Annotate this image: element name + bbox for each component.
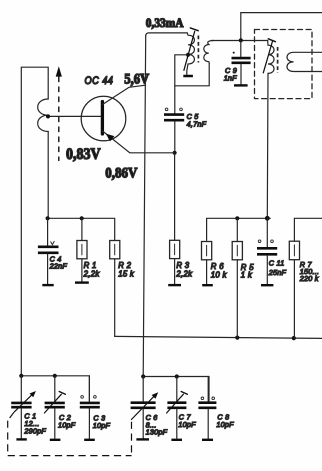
ground C6: [136, 438, 149, 440]
resistor R3: [170, 240, 194, 284]
node R7 bottom: [292, 336, 296, 340]
wire oscillator secondary top to C9 node and T2 primary: [211, 40, 268, 42]
wire tap to C5 line: [175, 55, 188, 113]
svg-text:220 k: 220 k: [299, 274, 319, 283]
variable capacitor C2: [44, 376, 75, 438]
ground C11: [261, 284, 273, 286]
transistor Q1 base bar: [101, 102, 104, 135]
node C11 top: [265, 216, 270, 221]
variable capacitor C6: [131, 377, 168, 439]
transformer T1 secondary coil: [204, 41, 214, 64]
svg-text:10pF: 10pF: [216, 420, 234, 429]
antenna coil L1 winding: [38, 99, 49, 132]
svg-text:0,33mA: 0,33mA: [146, 15, 184, 30]
svg-text:C 11: C 11: [269, 258, 285, 267]
transformer T1 primary coil: [187, 33, 195, 75]
svg-text:130pF: 130pF: [146, 428, 168, 437]
output transformer T2 enclosure (dashed box): [255, 30, 313, 99]
variable capacitor C1: [11, 376, 46, 438]
node C9 junction: [239, 38, 243, 42]
svg-text:10 k: 10 k: [211, 270, 228, 279]
node C7 top: [175, 374, 179, 378]
resistor R7: [289, 218, 322, 338]
svg-text:1 k: 1 k: [241, 271, 253, 280]
transformer T2 primary coil: [268, 41, 274, 74]
transistor Q1 OC44 circle: [81, 96, 126, 141]
ground R3: [168, 284, 181, 286]
svg-text:2,2k: 2,2k: [175, 269, 193, 278]
core T2 dashed: [277, 47, 279, 73]
ground R6: [202, 284, 213, 286]
transistor Q1 collector lead: [103, 85, 146, 104]
svg-text:290pF: 290pF: [23, 426, 46, 435]
core T1 dashed: [197, 36, 199, 63]
resistor R1: [77, 218, 100, 281]
node C4 top: [46, 216, 50, 220]
adjustable core arrow T2: [263, 39, 275, 73]
svg-text:5,6V: 5,6V: [124, 71, 149, 87]
svg-text:0,86V: 0,86V: [105, 166, 137, 182]
tuning core dashed arrow L1: [56, 66, 62, 161]
capacitor C11: [257, 218, 287, 284]
node emitter junction: [173, 151, 177, 155]
wire antenna tank bus: [21, 376, 89, 402]
svg-text:10pF: 10pF: [178, 420, 196, 429]
wire base to coil tap: [48, 115, 101, 117]
svg-text:22nF: 22nF: [49, 262, 68, 271]
svg-text:15 k: 15 k: [118, 269, 135, 278]
svg-text:0,83V: 0,83V: [66, 146, 101, 163]
resistor R6: [202, 242, 228, 284]
transistor Q1 emitter arrow (PNP): [106, 134, 115, 142]
svg-text:2,2k: 2,2k: [83, 269, 101, 278]
capacitor C4: [38, 218, 67, 284]
node R5 top: [235, 216, 239, 220]
antenna coil L1 frame: [21, 67, 48, 376]
wire T2 primary bottom down to filter node: [266, 73, 269, 218]
wire collector supply line down to oscillator tank: [143, 36, 146, 376]
node T1 primary tap: [186, 53, 190, 57]
wire filter bus (R6 R5 C11): [207, 218, 271, 240]
capacitor C9: [224, 40, 251, 84]
node R5 bottom: [235, 336, 239, 340]
mechanical coupling of tuning gang (dashed): [8, 412, 132, 455]
wire emitter to junction and down to R3: [130, 153, 175, 241]
ground C2: [50, 439, 61, 441]
ground C8: [202, 439, 213, 441]
node C2 top: [53, 374, 57, 378]
wire top rail: [241, 13, 322, 41]
ground C7: [171, 439, 182, 441]
ground C9: [234, 84, 248, 86]
ground C3: [84, 439, 95, 441]
node C1 top: [19, 374, 23, 378]
ground C1: [16, 438, 26, 440]
transformer T2 secondary coil: [287, 52, 322, 71]
adjustable core arrow T1: [184, 28, 198, 70]
resistor R5: [232, 218, 254, 337]
capacitor C5: [164, 108, 207, 153]
resistor R2: [110, 241, 135, 337]
ground C4: [42, 284, 53, 286]
trimmer capacitor C8: [198, 377, 234, 439]
node L1 tap: [46, 114, 50, 118]
svg-text:25nF: 25nF: [268, 268, 287, 277]
svg-text:4,7nF: 4,7nF: [187, 120, 207, 129]
svg-text:10pF: 10pF: [93, 421, 111, 430]
wire negative rail: [115, 336, 322, 338]
ground T1 primary: [183, 75, 193, 78]
svg-text:1nF: 1nF: [224, 73, 237, 82]
svg-text:OC 44: OC 44: [85, 75, 114, 87]
variable capacitor C7: [167, 377, 197, 439]
node R1 top: [80, 216, 84, 220]
wire 0,33mA feed: [146, 33, 188, 36]
wire base bias bus: [48, 218, 115, 240]
svg-text:10pF: 10pF: [58, 420, 76, 429]
node C6 top: [141, 374, 145, 378]
transistor Q1 emitter lead: [103, 131, 130, 153]
trimmer capacitor C3: [80, 376, 111, 438]
ground R1: [75, 281, 89, 283]
wire oscillator tank bus: [143, 377, 209, 402]
wire T1 secondary bottom to emitter node line: [175, 63, 209, 86]
